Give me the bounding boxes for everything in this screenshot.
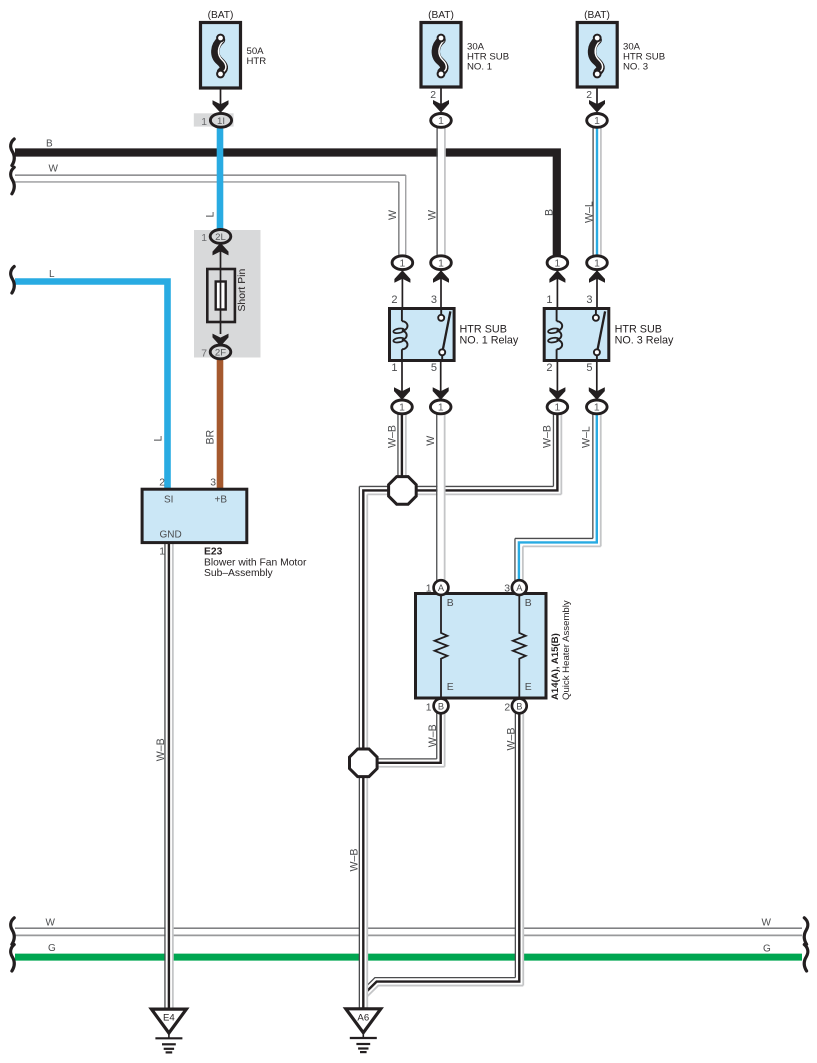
label pin 7 at 2F — [201, 349, 207, 360]
connector relay3 pin5 bottom — [587, 400, 608, 414]
svg-text:B: B — [46, 138, 53, 149]
svg-text:NO. 1: NO. 1 — [467, 62, 492, 73]
svg-text:B: B — [438, 701, 444, 711]
wire W bus (top) — [15, 175, 406, 255]
label G bottom left — [48, 943, 56, 954]
svg-text:NO. 1 Relay: NO. 1 Relay — [460, 335, 519, 347]
relay U1 switch — [438, 309, 450, 361]
wire W (fuse2 connector to relay1 pin3) — [437, 127, 445, 256]
connector relay1 pin1 bottom — [392, 400, 413, 414]
svg-text:W: W — [49, 164, 59, 175]
svg-text:1: 1 — [594, 403, 600, 414]
label heater B 2 — [525, 598, 532, 609]
svg-text:W–L: W–L — [583, 201, 595, 223]
label heater pin 1A — [426, 584, 432, 595]
svg-text:B: B — [447, 598, 454, 609]
relay U2 box (HTR SUB NO. 3 Relay) — [544, 309, 609, 361]
label L rotated blower — [153, 436, 165, 442]
continuation brace G bottom right — [804, 945, 808, 972]
wire fuse3 to connector — [596, 87, 598, 104]
svg-text:W–B: W–B — [348, 849, 360, 872]
heater resistor 2 — [513, 595, 526, 699]
svg-text:E: E — [447, 682, 454, 693]
label relay3 pin3 — [586, 294, 592, 306]
wire relay3 pin5 lead — [596, 361, 598, 400]
relay U2 coil — [548, 309, 562, 361]
svg-text:SI: SI — [164, 494, 173, 505]
label pin 1 at 1I — [201, 117, 207, 128]
svg-text:2F: 2F — [215, 348, 226, 359]
label Short Pin rotated — [237, 269, 248, 312]
label W rotated relay1 pin5 — [425, 436, 437, 446]
wire W-B (lower junction to heater pin1B) — [376, 713, 444, 767]
wire relay3 pin3 lead — [596, 270, 598, 309]
wire relay3 pin2 lead — [556, 361, 558, 400]
label pin 1 blower GND — [159, 547, 165, 558]
label pin 2 fuse2 — [430, 90, 436, 101]
svg-text:W–L: W–L — [581, 426, 593, 448]
label W-B rotated lower junction wire — [348, 849, 360, 872]
arrowhead relay1 pin1 down — [394, 387, 410, 400]
label heater B 1 — [447, 598, 454, 609]
arrowhead relay1 pin2 up — [394, 270, 410, 283]
svg-text:E23: E23 — [204, 547, 223, 558]
relay U2 switch — [593, 309, 605, 361]
svg-text:1I: 1I — [217, 116, 225, 127]
label W bottom left — [46, 918, 56, 929]
svg-text:Sub–Assembly: Sub–Assembly — [204, 568, 274, 579]
svg-text:1: 1 — [159, 547, 165, 558]
label HTR SUB NO. 1 Relay — [460, 324, 519, 347]
relay U1 box (HTR SUB NO. 1 Relay) — [390, 309, 455, 361]
label W rotated (fuse2 drop) — [426, 210, 438, 220]
svg-text:1: 1 — [555, 258, 561, 269]
svg-text:5: 5 — [586, 362, 592, 374]
svg-text:E4: E4 — [163, 1013, 175, 1024]
label HTR SUB NO. 3 Relay — [615, 324, 674, 347]
svg-text:1: 1 — [438, 258, 444, 269]
svg-text:3: 3 — [504, 584, 510, 595]
wire L (fuse 1I to 2L, blue) — [217, 127, 224, 231]
arrowhead relay1 pin5 down — [433, 387, 449, 400]
arrowhead 2F down — [213, 334, 229, 347]
label heater pin 1B — [426, 702, 432, 713]
svg-text:1: 1 — [438, 116, 444, 127]
label W rotated (W bus drop) — [387, 210, 399, 220]
svg-text:2L: 2L — [215, 232, 226, 243]
connector relay1 pin2 top — [392, 256, 413, 270]
label relay1 pin5 — [431, 362, 437, 374]
svg-text:1: 1 — [555, 403, 561, 414]
wire W-L (relay3 pin5 to heater pin3A) — [515, 414, 601, 581]
wire relay1 pin5 lead — [440, 361, 442, 400]
svg-text:2: 2 — [159, 478, 165, 489]
wire relay1 pin2 lead — [401, 270, 403, 309]
svg-text:Blower with Fan Motor: Blower with Fan Motor — [204, 558, 307, 569]
svg-text:W–B: W–B — [505, 728, 517, 751]
svg-text:W–B: W–B — [386, 425, 398, 448]
wire W-B (heater pin2B to lower junction, with merge) — [364, 713, 523, 996]
label W-L rotated relay3 pin5 — [581, 426, 593, 448]
wire BR (2F to blower +B) — [217, 358, 224, 490]
svg-text:2: 2 — [546, 362, 552, 374]
svg-text:1: 1 — [201, 117, 207, 128]
label relay3 pin5 — [586, 362, 592, 374]
wire relay1 pin1 lead — [401, 361, 403, 400]
svg-text:B: B — [516, 701, 522, 711]
connector relay1 pin5 bottom — [430, 400, 451, 414]
svg-text:1: 1 — [391, 362, 397, 374]
label pin 2 fuse3 — [586, 90, 592, 101]
svg-text:BR: BR — [205, 429, 217, 444]
label (BAT) fuse2 — [428, 10, 454, 21]
label 30A HTR SUB NO. 1 — [467, 42, 509, 73]
continuation brace B bus — [11, 139, 15, 166]
label pin 3 blower +B — [210, 478, 216, 489]
wire relay1 pin3 lead — [440, 270, 442, 309]
svg-text:1: 1 — [399, 403, 405, 414]
arrowhead fuse3 — [589, 100, 605, 113]
svg-text:1: 1 — [594, 116, 600, 127]
label B bus — [46, 138, 53, 149]
label L wire rotated — [205, 212, 217, 218]
continuation brace L bus — [11, 267, 15, 294]
connector relay3 pin3 top — [587, 256, 608, 270]
continuation brace G bottom left — [11, 945, 15, 972]
svg-text:5: 5 — [431, 362, 437, 374]
label relay1 pin3 — [431, 294, 437, 306]
svg-text:G: G — [48, 943, 56, 954]
svg-text:A: A — [438, 583, 445, 593]
svg-text:(BAT): (BAT) — [428, 10, 454, 21]
svg-text:W–B: W–B — [427, 724, 439, 747]
wire relay3 pin1 lead — [556, 270, 558, 309]
arrowhead relay3 pin5 down — [589, 387, 605, 400]
label pin 2 blower SI — [159, 478, 165, 489]
label W-B rotated heater 1B wire — [427, 724, 439, 747]
wire L bus (blue, left) — [15, 282, 168, 490]
label W-B rotated relay1 pin1 — [386, 425, 398, 448]
fuse 30A HTR SUB NO. 1 — [421, 23, 461, 88]
relay U1 coil — [393, 309, 407, 361]
connector relay3 pin1 top — [547, 256, 568, 270]
svg-text:L: L — [153, 436, 165, 442]
arrowhead fuse2 — [433, 100, 449, 113]
wire W-L (fuse3 connector to relay3 pin3) — [593, 127, 601, 256]
svg-text:B: B — [544, 209, 556, 216]
svg-text:W–B: W–B — [155, 738, 167, 761]
svg-text:L: L — [205, 212, 217, 218]
svg-text:G: G — [763, 944, 771, 955]
svg-text:2: 2 — [430, 90, 436, 101]
heater pin 3A — [512, 580, 527, 595]
svg-text:2: 2 — [586, 90, 592, 101]
svg-text:E: E — [525, 682, 532, 693]
svg-text:3: 3 — [210, 478, 216, 489]
ground A6 — [346, 1009, 381, 1052]
svg-text:Quick Heater Assembly: Quick Heater Assembly — [561, 600, 572, 700]
label heater E 2 — [525, 682, 532, 693]
wire B bus (thick black, top) — [15, 153, 557, 256]
label G bottom right — [763, 944, 771, 955]
wire fuse2 to connector — [440, 87, 442, 104]
svg-text:L: L — [49, 269, 55, 280]
svg-text:W: W — [46, 918, 56, 929]
label heater E 1 — [447, 682, 454, 693]
label B rotated (B bus drop) — [544, 209, 556, 216]
svg-text:A14(A), A15(B): A14(A), A15(B) — [550, 633, 561, 700]
svg-text:W: W — [425, 436, 437, 446]
connector band 1I (junction block) — [194, 113, 234, 126]
wire W-B (blower GND to ground E4) — [165, 543, 173, 1009]
svg-text:NO. 3: NO. 3 — [623, 62, 648, 73]
label +B — [215, 494, 228, 505]
junction node (upper splice) — [389, 477, 417, 505]
fuse 50A HTR — [201, 23, 241, 89]
arrowhead relay1 pin3 up — [433, 270, 449, 283]
label E23 name — [204, 547, 307, 580]
label A14 A15 rotated — [550, 633, 561, 700]
svg-text:A6: A6 — [357, 1012, 369, 1023]
label W bottom right — [762, 918, 772, 929]
wire fuse1 to 1I — [220, 88, 222, 105]
connector fuse2 pin1 — [431, 114, 452, 128]
svg-text:3: 3 — [431, 294, 437, 306]
connector relay3 pin2 bottom — [547, 400, 568, 414]
svg-text:+B: +B — [215, 494, 228, 505]
ground E4 — [151, 1009, 186, 1052]
svg-text:2: 2 — [391, 294, 397, 306]
fuse 30A HTR SUB NO. 3 — [577, 23, 617, 88]
label W-B rotated relay3 pin2 — [542, 425, 554, 448]
arrowhead relay3 pin2 down — [549, 387, 565, 400]
svg-text:Short Pin: Short Pin — [237, 269, 248, 312]
label 50A HTR — [247, 46, 267, 67]
junction block band (Short Pin) — [194, 230, 261, 358]
junction node (lower splice) — [350, 749, 378, 777]
arrowhead relay3 pin1 up — [549, 270, 565, 283]
wire G bus (green, bottom) — [15, 954, 802, 961]
connector 2L — [210, 230, 231, 244]
connector 2F — [210, 345, 231, 359]
arrowhead 2L up — [213, 243, 229, 256]
label (BAT) fuse1 — [208, 10, 234, 21]
svg-text:2: 2 — [504, 702, 510, 713]
label W-L rotated (fuse3 drop) — [583, 201, 595, 223]
continuation brace W bottom left — [11, 918, 15, 945]
heater pin 1A — [434, 580, 449, 595]
svg-text:1: 1 — [594, 258, 600, 269]
heater pin 2B — [512, 699, 527, 714]
wire W-B (lower junction to ground A6) — [359, 763, 367, 1009]
svg-text:1: 1 — [546, 294, 552, 306]
svg-text:HTR: HTR — [247, 56, 267, 67]
svg-text:1: 1 — [438, 403, 444, 414]
svg-text:W: W — [426, 210, 438, 220]
short pin inner slot — [216, 282, 226, 310]
svg-text:1: 1 — [426, 702, 432, 713]
heater pin 1B — [434, 699, 449, 714]
connector fuse3 pin1 — [587, 114, 608, 128]
short pin outer box — [207, 269, 235, 322]
svg-text:(BAT): (BAT) — [584, 10, 610, 21]
svg-text:(BAT): (BAT) — [208, 10, 234, 21]
continuation brace W bottom right — [804, 918, 808, 945]
arrowhead into 1I — [213, 100, 229, 113]
label Quick Heater Assembly rotated — [561, 600, 572, 700]
svg-text:W: W — [762, 918, 772, 929]
label W-B rotated blower gnd wire — [155, 738, 167, 761]
label heater pin 3A — [504, 584, 510, 595]
wire W (relay1 pin5 to heater pin1A) — [437, 414, 445, 581]
svg-text:W–B: W–B — [542, 425, 554, 448]
label 30A HTR SUB NO. 3 — [623, 42, 665, 73]
wire short pin lead — [220, 243, 222, 334]
label heater pin 2B — [504, 702, 510, 713]
svg-text:7: 7 — [201, 349, 207, 360]
label relay3 pin2 — [546, 362, 552, 374]
label BR rotated — [205, 429, 217, 444]
wire W-B (junction to lower junction) — [359, 486, 390, 748]
label SI — [164, 494, 173, 505]
svg-text:1: 1 — [426, 584, 432, 595]
continuation brace W bus top — [11, 167, 15, 194]
label W-B rotated heater 2B wire — [505, 728, 517, 751]
svg-text:1: 1 — [400, 258, 406, 269]
label L bus — [49, 269, 55, 280]
connector 1I — [210, 113, 231, 127]
arrowhead relay3 pin3 up — [589, 270, 605, 283]
svg-text:W: W — [387, 210, 399, 220]
label W bus top — [49, 164, 59, 175]
wire W-B (relay3 pin2 to junction) — [416, 414, 561, 494]
label (BAT) fuse3 — [584, 10, 610, 21]
svg-text:3: 3 — [586, 294, 592, 306]
wire W-B (relay1 pin1 to junction) — [398, 414, 406, 477]
svg-text:B: B — [525, 598, 532, 609]
svg-text:NO. 3 Relay: NO. 3 Relay — [615, 335, 674, 347]
svg-text:GND: GND — [160, 529, 182, 540]
svg-text:1: 1 — [201, 233, 207, 244]
svg-text:A: A — [516, 583, 523, 593]
label pin 1 at 2L — [201, 233, 207, 244]
label relay3 pin1 — [546, 294, 552, 306]
wire W bus (bottom) — [15, 928, 802, 935]
label relay1 pin1 — [391, 362, 397, 374]
blower motor E23 box — [142, 489, 247, 542]
quick heater assembly box — [416, 594, 547, 699]
connector relay1 pin3 top — [431, 256, 452, 270]
label GND — [160, 529, 182, 540]
label relay1 pin2 — [391, 294, 397, 306]
heater resistor 1 — [435, 595, 448, 699]
